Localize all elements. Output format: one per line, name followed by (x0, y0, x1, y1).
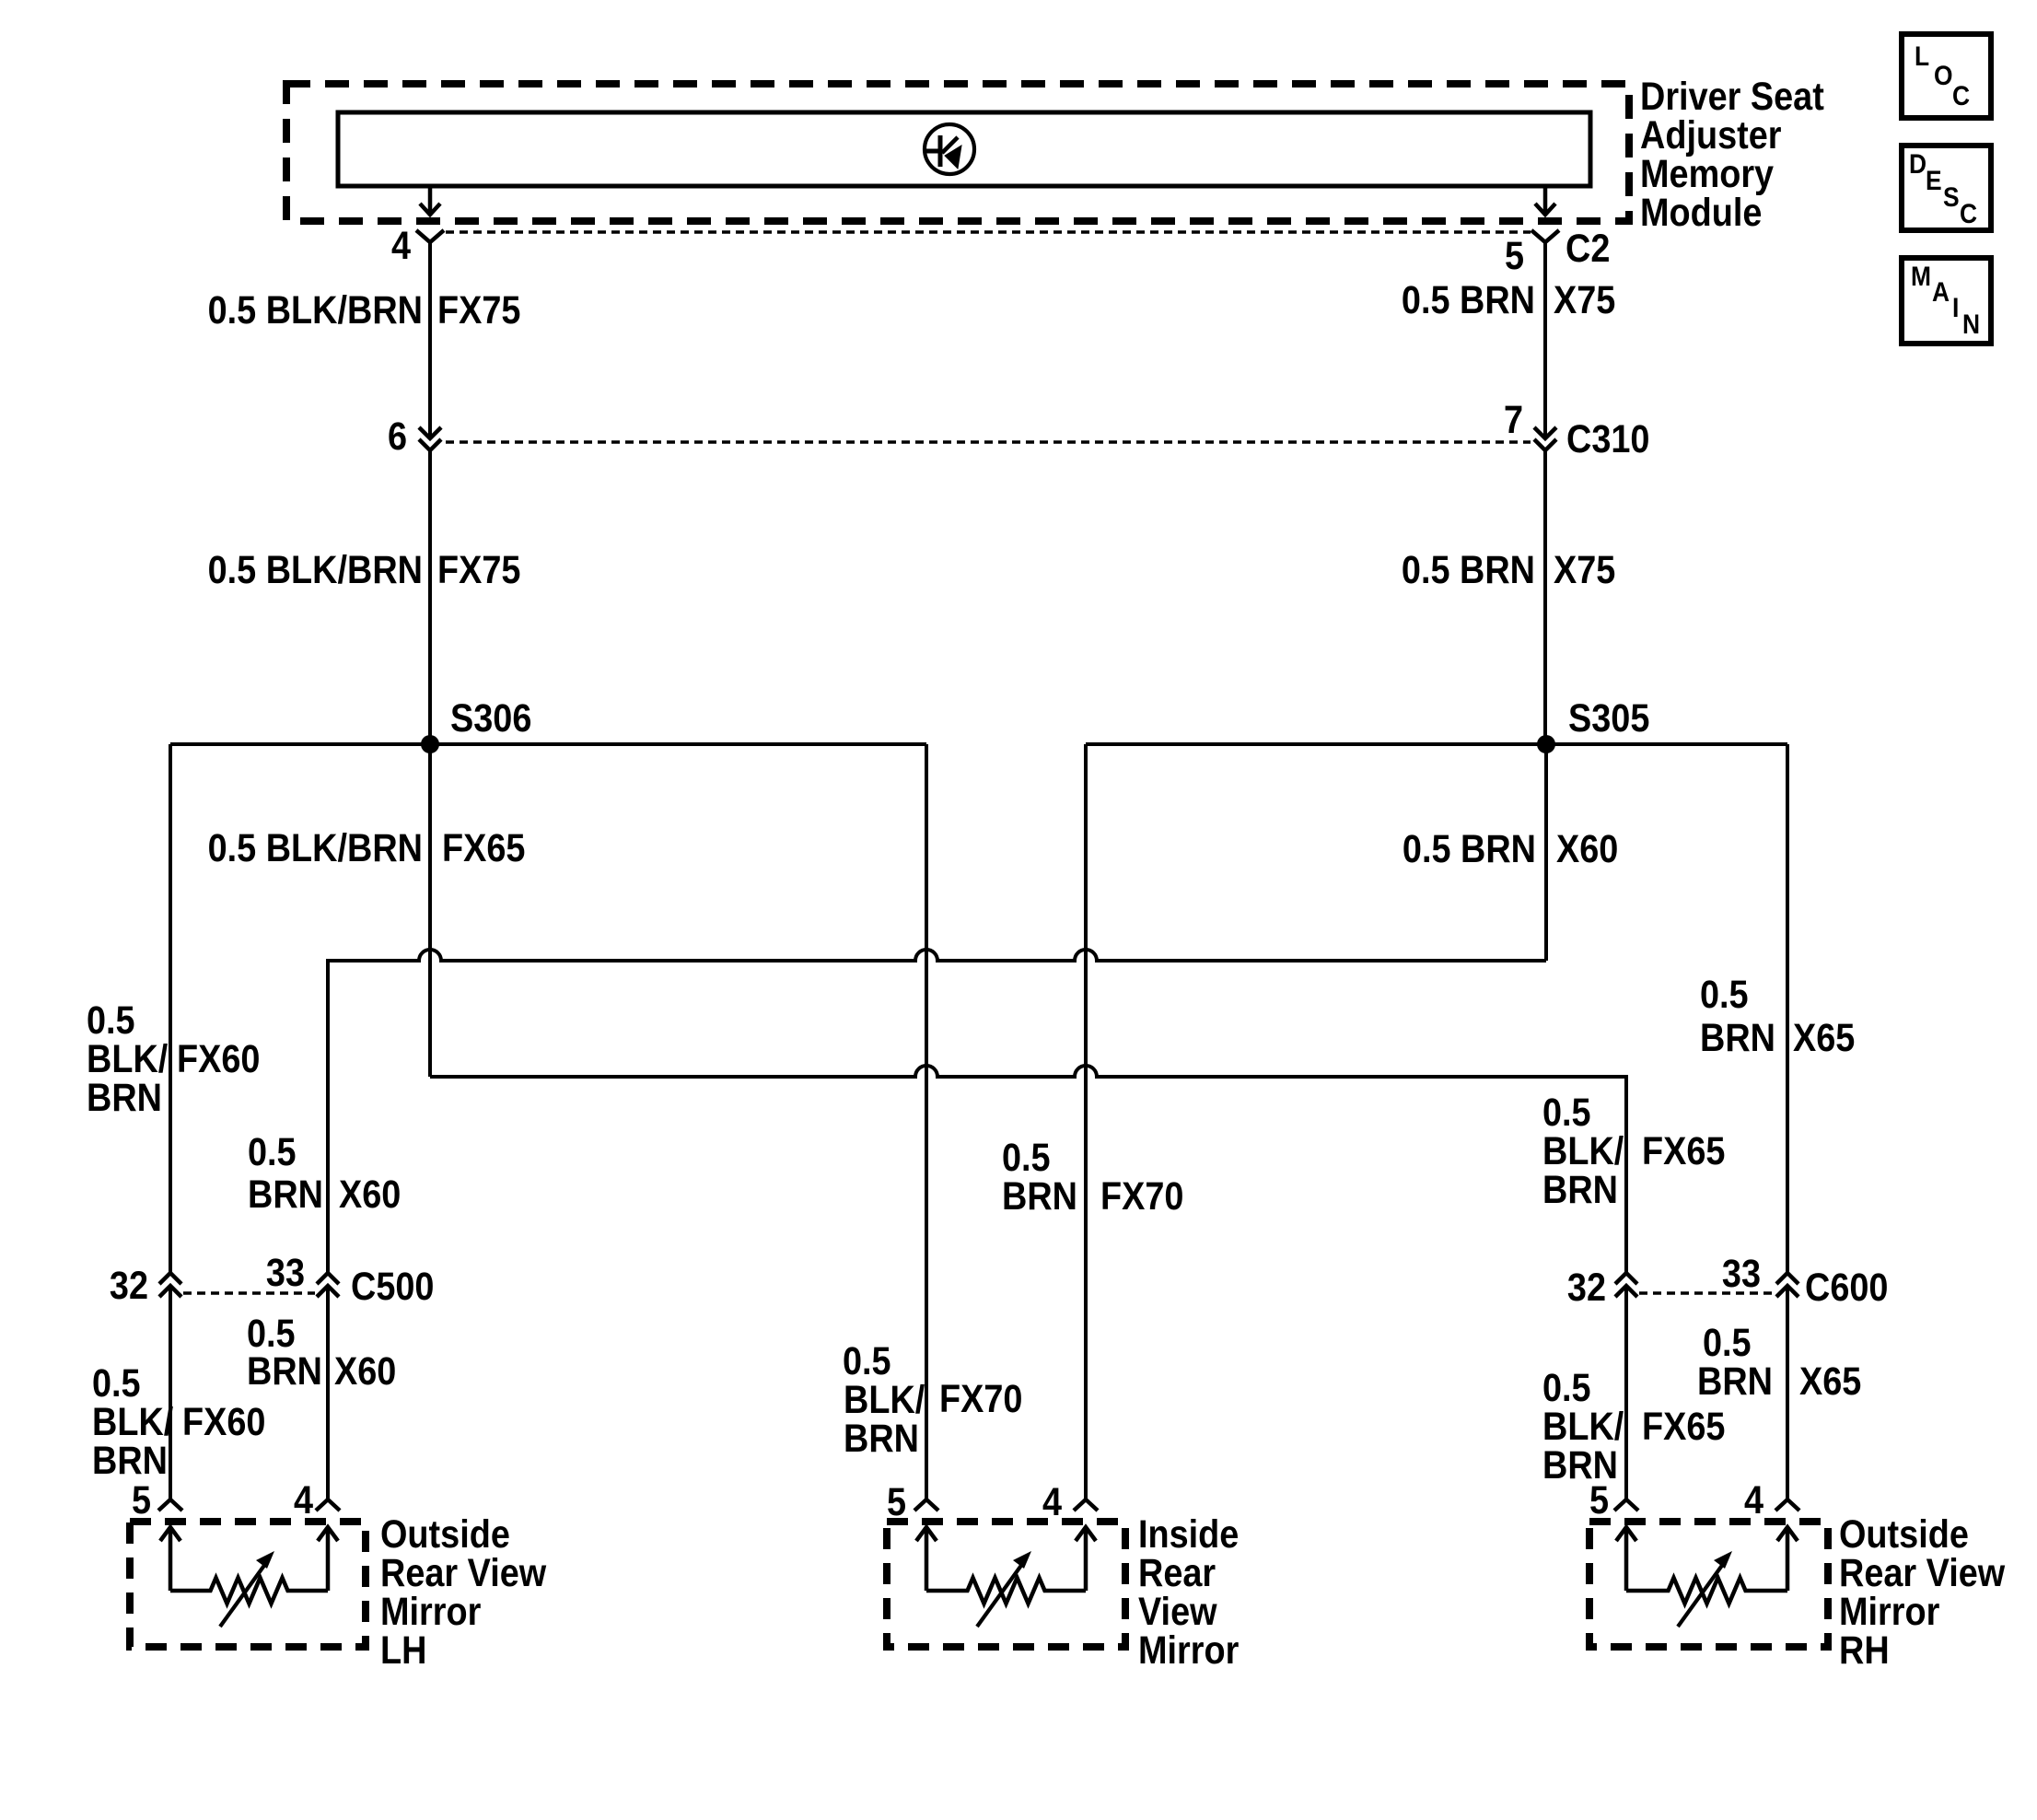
connector C500 dashed separation line (183, 1291, 315, 1295)
svg-text:FX75: FX75 (437, 287, 520, 332)
Inside Rear View Mirror dashed box (887, 1522, 1125, 1647)
svg-text:FX75: FX75 (437, 547, 520, 592)
svg-text:5: 5 (132, 1477, 151, 1522)
module U1: Driver Seat Adjuster Memory Module dashed outline (286, 84, 1629, 221)
wire S306 left branch down to C500 pin 32 (169, 744, 172, 1273)
svg-text:X65: X65 (1793, 1015, 1855, 1060)
mirror pin 5 terminal chevron (914, 1499, 938, 1511)
svg-text:FX70: FX70 (939, 1376, 1022, 1421)
svg-text:BRN: BRN (87, 1075, 162, 1120)
svg-text:S305: S305 (1568, 695, 1649, 741)
svg-text:BRN: BRN (1700, 1015, 1775, 1060)
svg-text:0.5: 0.5 (1700, 972, 1749, 1017)
svg-text:5: 5 (887, 1479, 906, 1524)
mirror variable resistor element (170, 1578, 328, 1604)
svg-text:C: C (1952, 79, 1970, 111)
svg-text:X75: X75 (1554, 277, 1615, 322)
svg-text:32: 32 (1567, 1265, 1606, 1310)
svg-text:LH: LH (380, 1627, 426, 1673)
svg-text:A: A (1932, 275, 1950, 307)
mirror pin 4 terminal chevron (316, 1499, 340, 1511)
wire C500 pin 33 to LH mirror pin 4 (326, 1286, 330, 1499)
svg-text:BRN: BRN (1002, 1173, 1077, 1219)
svg-text:N: N (1962, 308, 1980, 339)
svg-text:S: S (1943, 181, 1960, 212)
module U1 internal bus bar rectangle (338, 112, 1590, 186)
svg-text:C600: C600 (1805, 1265, 1888, 1310)
Outside Rear View Mirror LH dashed box (130, 1522, 366, 1647)
svg-text:5: 5 (1589, 1477, 1609, 1522)
connector C2 pin 4 female terminal (416, 230, 444, 242)
svg-text:BRN: BRN (1542, 1167, 1618, 1212)
svg-text:BRN: BRN (1697, 1359, 1773, 1404)
wire 0.5 BRN X75 upper segment (pin5 to C310 pin7) (1543, 242, 1547, 438)
svg-text:C310: C310 (1566, 416, 1649, 461)
wire S306 right branch down to inside mirror pin 5 (925, 744, 928, 1499)
svg-text:RH: RH (1839, 1627, 1890, 1673)
svg-text:0.5: 0.5 (248, 1129, 297, 1174)
svg-text:0.5 BRN: 0.5 BRN (1402, 277, 1535, 322)
mirror pin 4 terminal chevron (1074, 1499, 1098, 1511)
connector C500 pin 33 terminal chevrons (317, 1273, 339, 1297)
mirror variable resistor element (1626, 1578, 1787, 1604)
svg-text:I: I (1952, 291, 1959, 322)
svg-text:4: 4 (391, 223, 411, 268)
wire C600 pin 32 to RH mirror pin 5 (1624, 1286, 1628, 1499)
mirror pin 5 terminal chevron (158, 1499, 182, 1511)
module internal device symbol: circled K-diode (925, 124, 974, 174)
splice S305 junction dot (1537, 735, 1555, 753)
svg-text:X60: X60 (339, 1172, 401, 1217)
splice S306 junction dot (421, 735, 439, 753)
svg-text:4: 4 (1042, 1479, 1062, 1524)
MAIN legend box (1902, 258, 1991, 344)
svg-text:7: 7 (1504, 397, 1523, 442)
svg-text:0.5 BLK/BRN: 0.5 BLK/BRN (208, 287, 423, 332)
DESC legend box (1902, 146, 1991, 230)
svg-text:X75: X75 (1554, 547, 1615, 592)
svg-text:BRN: BRN (248, 1172, 323, 1217)
svg-text:FX65: FX65 (1642, 1128, 1725, 1173)
svg-text:Mirror: Mirror (1138, 1627, 1240, 1673)
svg-text:X60: X60 (334, 1348, 396, 1394)
wire 0.5 BLK/BRN FX75 upper segment (pin4 to C310 pin6) (428, 242, 432, 438)
svg-text:0.5 BRN: 0.5 BRN (1402, 547, 1535, 592)
svg-text:BRN: BRN (92, 1438, 168, 1483)
wire C600 pin 33 to RH mirror pin 4 (1786, 1286, 1789, 1499)
svg-text:0.5 BLK/BRN: 0.5 BLK/BRN (208, 825, 423, 870)
svg-text:Module: Module (1640, 190, 1762, 235)
svg-text:X60: X60 (1556, 826, 1618, 871)
LOC legend box (1902, 34, 1991, 118)
mirror resistor adjustment arrow (977, 1560, 1025, 1627)
mirror internal pin arrows (916, 1527, 1096, 1591)
wire 0.5 BRN X75 lower segment (C310 pin7 to S305) (1543, 450, 1547, 744)
svg-text:0.5 BLK/BRN: 0.5 BLK/BRN (208, 547, 423, 592)
wire 0.5 BLK/BRN FX75 lower segment (C310 pin6 to S306) (428, 450, 432, 744)
connector C600 dashed separation line (1639, 1291, 1775, 1295)
connector C600 pin 32 terminal chevrons (1615, 1273, 1637, 1297)
svg-text:0.5 BRN: 0.5 BRN (1403, 826, 1536, 871)
wire S305 right branch down to C600 pin 33 (1786, 744, 1789, 1273)
svg-text:6: 6 (388, 414, 407, 459)
wire crossover line X60 (S305 center routed left to LH mirror pin 4) with hops (328, 950, 1546, 1273)
splice S306 horizontal bus wire (170, 742, 926, 746)
svg-text:5: 5 (1505, 233, 1524, 278)
svg-text:BRN: BRN (844, 1416, 919, 1461)
wire 0.5 BLK/BRN FX65 (S306 down to crossover line) (428, 744, 432, 1077)
splice S305 horizontal bus wire (1086, 742, 1787, 746)
wire 0.5 BRN X60 (S305 down to crossover line) (1544, 744, 1548, 961)
module pin 5 arrow (1535, 188, 1555, 215)
svg-text:C2: C2 (1566, 226, 1610, 271)
svg-text:FX65: FX65 (442, 825, 525, 870)
module pin 4 arrow (420, 188, 440, 215)
svg-text:FX60: FX60 (182, 1399, 265, 1444)
svg-text:BRN: BRN (247, 1348, 322, 1394)
wire C500 pin 32 to LH mirror pin 5 (169, 1286, 172, 1499)
Outside Rear View Mirror RH dashed box (1589, 1522, 1828, 1647)
svg-text:C500: C500 (351, 1264, 434, 1309)
mirror pin 5 terminal chevron (1614, 1499, 1638, 1511)
wire crossover line FX65 (S306 center routed right to RH mirror pin 5) with hops (430, 1066, 1626, 1273)
connector C500 pin 32 terminal chevrons (159, 1273, 181, 1297)
mirror pin 4 terminal chevron (1775, 1499, 1799, 1511)
wire S305 left branch down to inside mirror pin 4 (1084, 744, 1088, 1499)
svg-text:33: 33 (1722, 1251, 1761, 1296)
connector C2 dashed separation line (446, 230, 1531, 234)
svg-text:4: 4 (294, 1477, 313, 1522)
svg-text:FX65: FX65 (1642, 1404, 1725, 1449)
svg-text:4: 4 (1744, 1477, 1763, 1522)
svg-text:S306: S306 (450, 695, 531, 741)
mirror internal pin arrows (1616, 1527, 1798, 1591)
svg-text:D: D (1909, 147, 1926, 179)
svg-text:M: M (1911, 260, 1931, 291)
mirror internal pin arrows (160, 1527, 338, 1591)
svg-text:FX70: FX70 (1100, 1173, 1183, 1219)
connector C310 pin 7 terminal chevrons (1534, 427, 1556, 450)
mirror resistor adjustment arrow (220, 1560, 268, 1627)
svg-text:FX60: FX60 (177, 1036, 260, 1081)
svg-text:C: C (1960, 197, 1977, 228)
svg-text:33: 33 (266, 1250, 305, 1295)
connector C310 pin 6 terminal chevrons (419, 427, 441, 450)
svg-text:32: 32 (110, 1263, 148, 1308)
mirror resistor adjustment arrow (1678, 1560, 1726, 1627)
svg-text:O: O (1934, 59, 1953, 90)
mirror variable resistor element (926, 1578, 1086, 1604)
svg-text:L: L (1915, 40, 1929, 71)
connector C310 dashed separation line (446, 440, 1531, 444)
connector C2 pin 5 female terminal (1531, 230, 1559, 242)
connector C600 pin 33 terminal chevrons (1776, 1273, 1798, 1297)
svg-text:E: E (1926, 164, 1942, 195)
svg-text:X65: X65 (1799, 1359, 1861, 1404)
